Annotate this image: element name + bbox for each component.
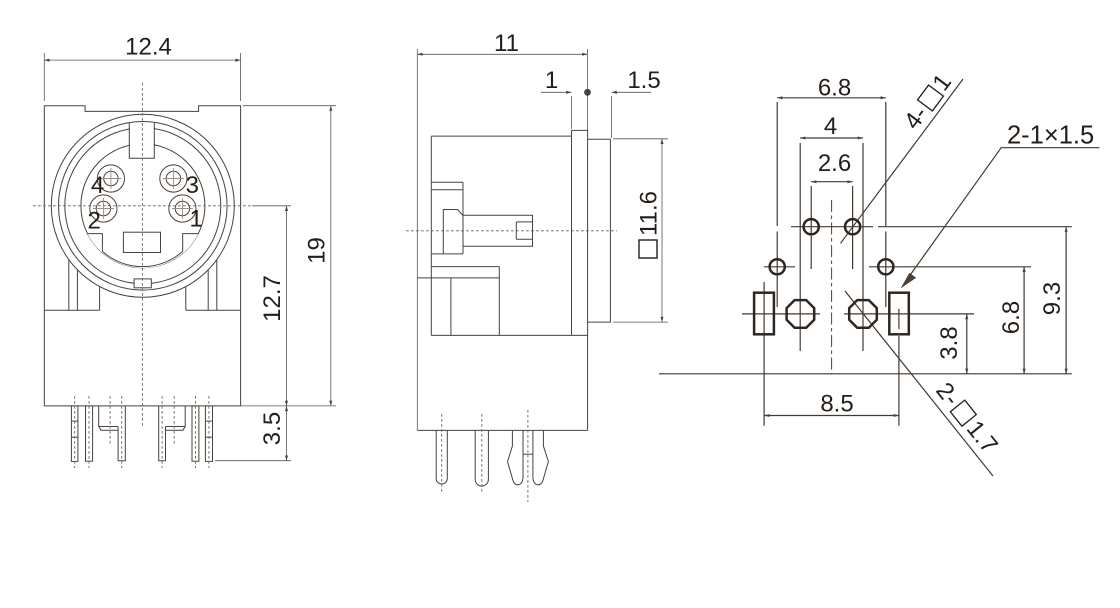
svg-text:3.8: 3.8 <box>936 326 963 359</box>
svg-text:1: 1 <box>190 205 203 232</box>
base bottom <box>417 429 587 431</box>
svg-text:4: 4 <box>824 113 837 140</box>
dimension 12.7 <box>252 205 291 207</box>
shield middle circle <box>59 122 228 291</box>
svg-text:2-1×1.5: 2-1×1.5 <box>1007 122 1094 150</box>
svg-text:3: 3 <box>186 172 199 199</box>
rear block right vertical <box>498 267 500 336</box>
row C-D crosshair left <box>764 266 795 268</box>
vertical crosshair octagon 2 <box>862 143 864 351</box>
centerline horizontal front view <box>33 205 252 207</box>
vertical crosshair circle C <box>776 102 778 226</box>
reference dot <box>584 89 591 96</box>
dimension 3.5 <box>215 460 291 462</box>
octagon hole 2 <box>849 300 877 328</box>
svg-text:12.7: 12.7 <box>259 275 286 322</box>
vertical crosshair circle B <box>852 186 854 269</box>
vertical crosshair octagon 1 <box>799 143 801 351</box>
row A-B crosshair horizontal <box>791 226 873 228</box>
label 2-square1.7 <box>930 378 1003 459</box>
pin 4 <box>97 165 124 192</box>
svg-text:4: 4 <box>91 172 104 199</box>
inner shelf left <box>44 309 99 311</box>
dimension 9.3 <box>1065 227 1067 374</box>
shield tab C <box>99 406 118 430</box>
hole circle B <box>845 219 860 234</box>
rear block inner vertical <box>450 278 452 336</box>
dimension 11 <box>417 53 587 55</box>
SIDE VIEW <box>406 30 668 502</box>
vertical crosshair circle A <box>810 186 812 269</box>
inner vertical lines <box>68 260 70 310</box>
dimension 1 <box>541 91 571 93</box>
side pin centerlines <box>441 414 443 492</box>
svg-text:9.3: 9.3 <box>1039 282 1066 315</box>
contact block right edge <box>462 182 464 254</box>
octagon hole 1 <box>787 300 815 328</box>
bayonet crossbar <box>523 453 533 455</box>
svg-text:12.4: 12.4 <box>125 33 172 60</box>
pin 2 <box>90 195 117 222</box>
slot rect R <box>889 293 909 335</box>
shelf riser left <box>99 287 101 310</box>
vertical crosshair rect R <box>898 309 900 329</box>
dimension 12.4 <box>43 53 45 101</box>
hole circle A <box>804 219 819 234</box>
board baseline <box>659 373 1072 375</box>
shield tab D <box>166 406 186 430</box>
bottom keyway <box>87 234 198 268</box>
base top edge <box>417 277 499 279</box>
shield ring bottom tab <box>134 279 151 288</box>
pin 3 <box>160 165 187 192</box>
svg-text:1: 1 <box>545 67 558 94</box>
dimension 6.8 right <box>1023 267 1025 374</box>
body right edge / flange left edge <box>571 130 573 335</box>
dimension 8.5 <box>764 415 899 417</box>
contact shaft <box>463 215 533 246</box>
bayonet right blade <box>533 430 549 484</box>
svg-text:6.8: 6.8 <box>818 74 851 101</box>
dimension 6.8 top <box>777 97 886 99</box>
dimension 2.6 <box>811 181 852 183</box>
socket face circle <box>81 144 205 268</box>
extension 9.3 top <box>878 226 1072 228</box>
base left edge and ext line 11 <box>416 49 418 430</box>
svg-text:4-: 4- <box>899 101 933 134</box>
dimension 1.5 <box>612 91 651 93</box>
vertical crosshair circle D <box>885 102 887 226</box>
svg-text:1.5: 1.5 <box>627 67 660 94</box>
leg A <box>71 406 78 462</box>
latch tab <box>431 182 463 190</box>
vertical centerline dashed <box>831 200 833 374</box>
shield inner circle <box>65 128 221 284</box>
svg-text:2-: 2- <box>930 378 964 412</box>
internal bottom line <box>431 334 587 336</box>
flange outline <box>572 130 588 430</box>
hole circle D <box>878 259 893 274</box>
hole circle C <box>770 259 785 274</box>
contact shaft tip <box>516 222 532 239</box>
leg centerlines dashed <box>74 396 76 468</box>
svg-text:3.5: 3.5 <box>259 412 286 445</box>
rear block top <box>431 266 499 268</box>
svg-text:8.5: 8.5 <box>820 391 853 418</box>
pin 1 <box>169 195 196 222</box>
svg-text:2: 2 <box>88 208 101 235</box>
leader 2-1x1.5 <box>906 148 1100 282</box>
contact block bottom <box>431 253 463 255</box>
body left edge <box>430 136 432 335</box>
bayonet left blade <box>508 430 524 484</box>
slot rect L <box>754 293 774 335</box>
svg-text:6.8: 6.8 <box>998 301 1025 334</box>
centerline vertical front view <box>141 83 143 428</box>
connector body front outline <box>44 106 240 406</box>
barrel outline <box>588 139 611 322</box>
bottom key rectangle hole <box>123 232 160 252</box>
label 4-square1 <box>899 69 957 134</box>
side pin 1 <box>436 430 447 484</box>
svg-text:19: 19 <box>304 237 331 264</box>
dimension 19 <box>243 105 336 107</box>
svg-text:11: 11 <box>494 30 519 57</box>
leg E <box>192 406 199 461</box>
leg B <box>86 406 93 461</box>
body top edge <box>431 135 571 137</box>
inner shelf right <box>186 309 241 311</box>
dimension square 11.6 <box>613 138 668 140</box>
top key slot <box>130 125 154 158</box>
side pin 2 <box>475 430 488 486</box>
svg-text:2.6: 2.6 <box>818 150 851 177</box>
row C-D crosshair right and 6.8 extension <box>869 266 1031 268</box>
leg F <box>205 406 212 462</box>
leader 2-square1.7 <box>845 291 993 476</box>
centerline horizontal side view <box>406 230 617 232</box>
octagon row crosshair and 3.8 extension <box>742 313 820 315</box>
vertical crosshair rect L / 8.5 extension <box>763 282 765 426</box>
shelf riser right <box>185 287 187 310</box>
leader 4-square1 <box>841 79 964 243</box>
dimension 4 <box>800 137 863 139</box>
dimension 3.8 <box>966 314 968 374</box>
shield outer circle <box>51 114 234 297</box>
PCB FOOTPRINT VIEW <box>659 69 1100 476</box>
FRONT VIEW <box>33 33 336 468</box>
svg-text:11.6: 11.6 <box>636 191 663 236</box>
contact spring <box>443 210 463 254</box>
